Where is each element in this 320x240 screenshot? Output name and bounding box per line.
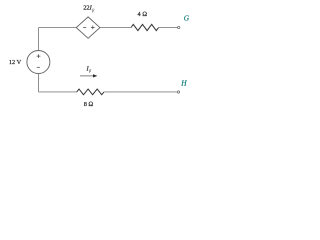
wire left vertical upper [38,28,40,51]
terminal node H circle [177,91,179,93]
terminal node G circle [178,26,180,28]
svg-text:Iβ: Iβ [86,65,92,72]
wire bottom rail left segment [39,91,77,93]
resistor R2 8 ohm zigzag [77,89,104,95]
current arrow I beta [80,75,94,77]
svg-text:H: H [180,79,187,88]
dependent source minus sign [83,26,86,28]
wire bottom rail right segment [104,91,177,93]
dependent source plus sign [91,26,95,30]
resistor R1 4 ohm zigzag [131,24,159,30]
svg-text:G: G [184,14,190,23]
voltage source plus sign [37,54,41,58]
voltage source minus sign [37,66,40,68]
svg-text:12 V: 12 V [9,59,22,66]
svg-text:22Iβ: 22Iβ [83,5,95,13]
wire left vertical lower [38,74,40,92]
wire top rail middle segment [100,27,131,29]
dependent source U1 diamond [76,17,100,38]
svg-text:4 Ω: 4 Ω [138,11,148,18]
voltage source V1 12 V [27,51,50,74]
svg-text:8 Ω: 8 Ω [84,101,94,108]
wire top rail right segment [159,27,178,29]
wire top rail left segment [39,27,77,29]
current arrow head [93,74,97,77]
